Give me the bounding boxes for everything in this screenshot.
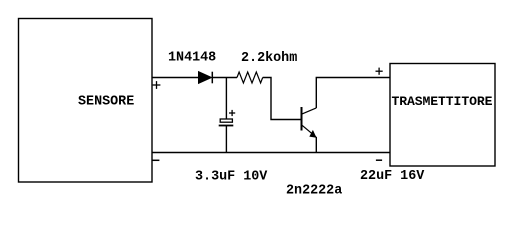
node - (transmitter negative terminal) (376, 159, 382, 161)
node + (sensor positive terminal) (153, 81, 161, 89)
wire: capacitor to ground rail (225, 126, 227, 153)
svg-text:3.3uF 10V: 3.3uF 10V (195, 170, 268, 185)
svg-text:22uF 16V: 22uF 16V (360, 169, 425, 184)
svg-text:2.2kohm: 2.2kohm (241, 51, 297, 66)
svg-text:2n2222a: 2n2222a (286, 184, 342, 199)
wire: diode cathode to resistor (212, 77, 237, 79)
transistor Q1 2n2222a (286, 107, 342, 199)
resistor R1 2.2kohm (237, 51, 297, 83)
svg-text:1N4148: 1N4148 (168, 51, 216, 66)
box SENSORE (19, 19, 153, 183)
capacitor C1 3.3uF polarized (219, 110, 236, 126)
box TRASMETTITORE (390, 64, 495, 167)
node - (sensor negative terminal) (152, 159, 159, 161)
wire top: sensor to diode anode (152, 77, 199, 79)
svg-text:SENSORE: SENSORE (78, 95, 134, 110)
wire: collector up and right to transmitter + (316, 78, 390, 109)
wire: bottom ground rail (152, 152, 390, 154)
diode D1 1N4148 (168, 51, 216, 84)
wire: resistor to corner, down, to transistor base (263, 78, 301, 120)
wire: diode output down to capacitor (225, 78, 227, 120)
wire: emitter down to ground rail (315, 137, 317, 153)
svg-text:TRASMETTITORE: TRASMETTITORE (392, 94, 493, 109)
node + (transmitter positive terminal) (376, 68, 383, 75)
